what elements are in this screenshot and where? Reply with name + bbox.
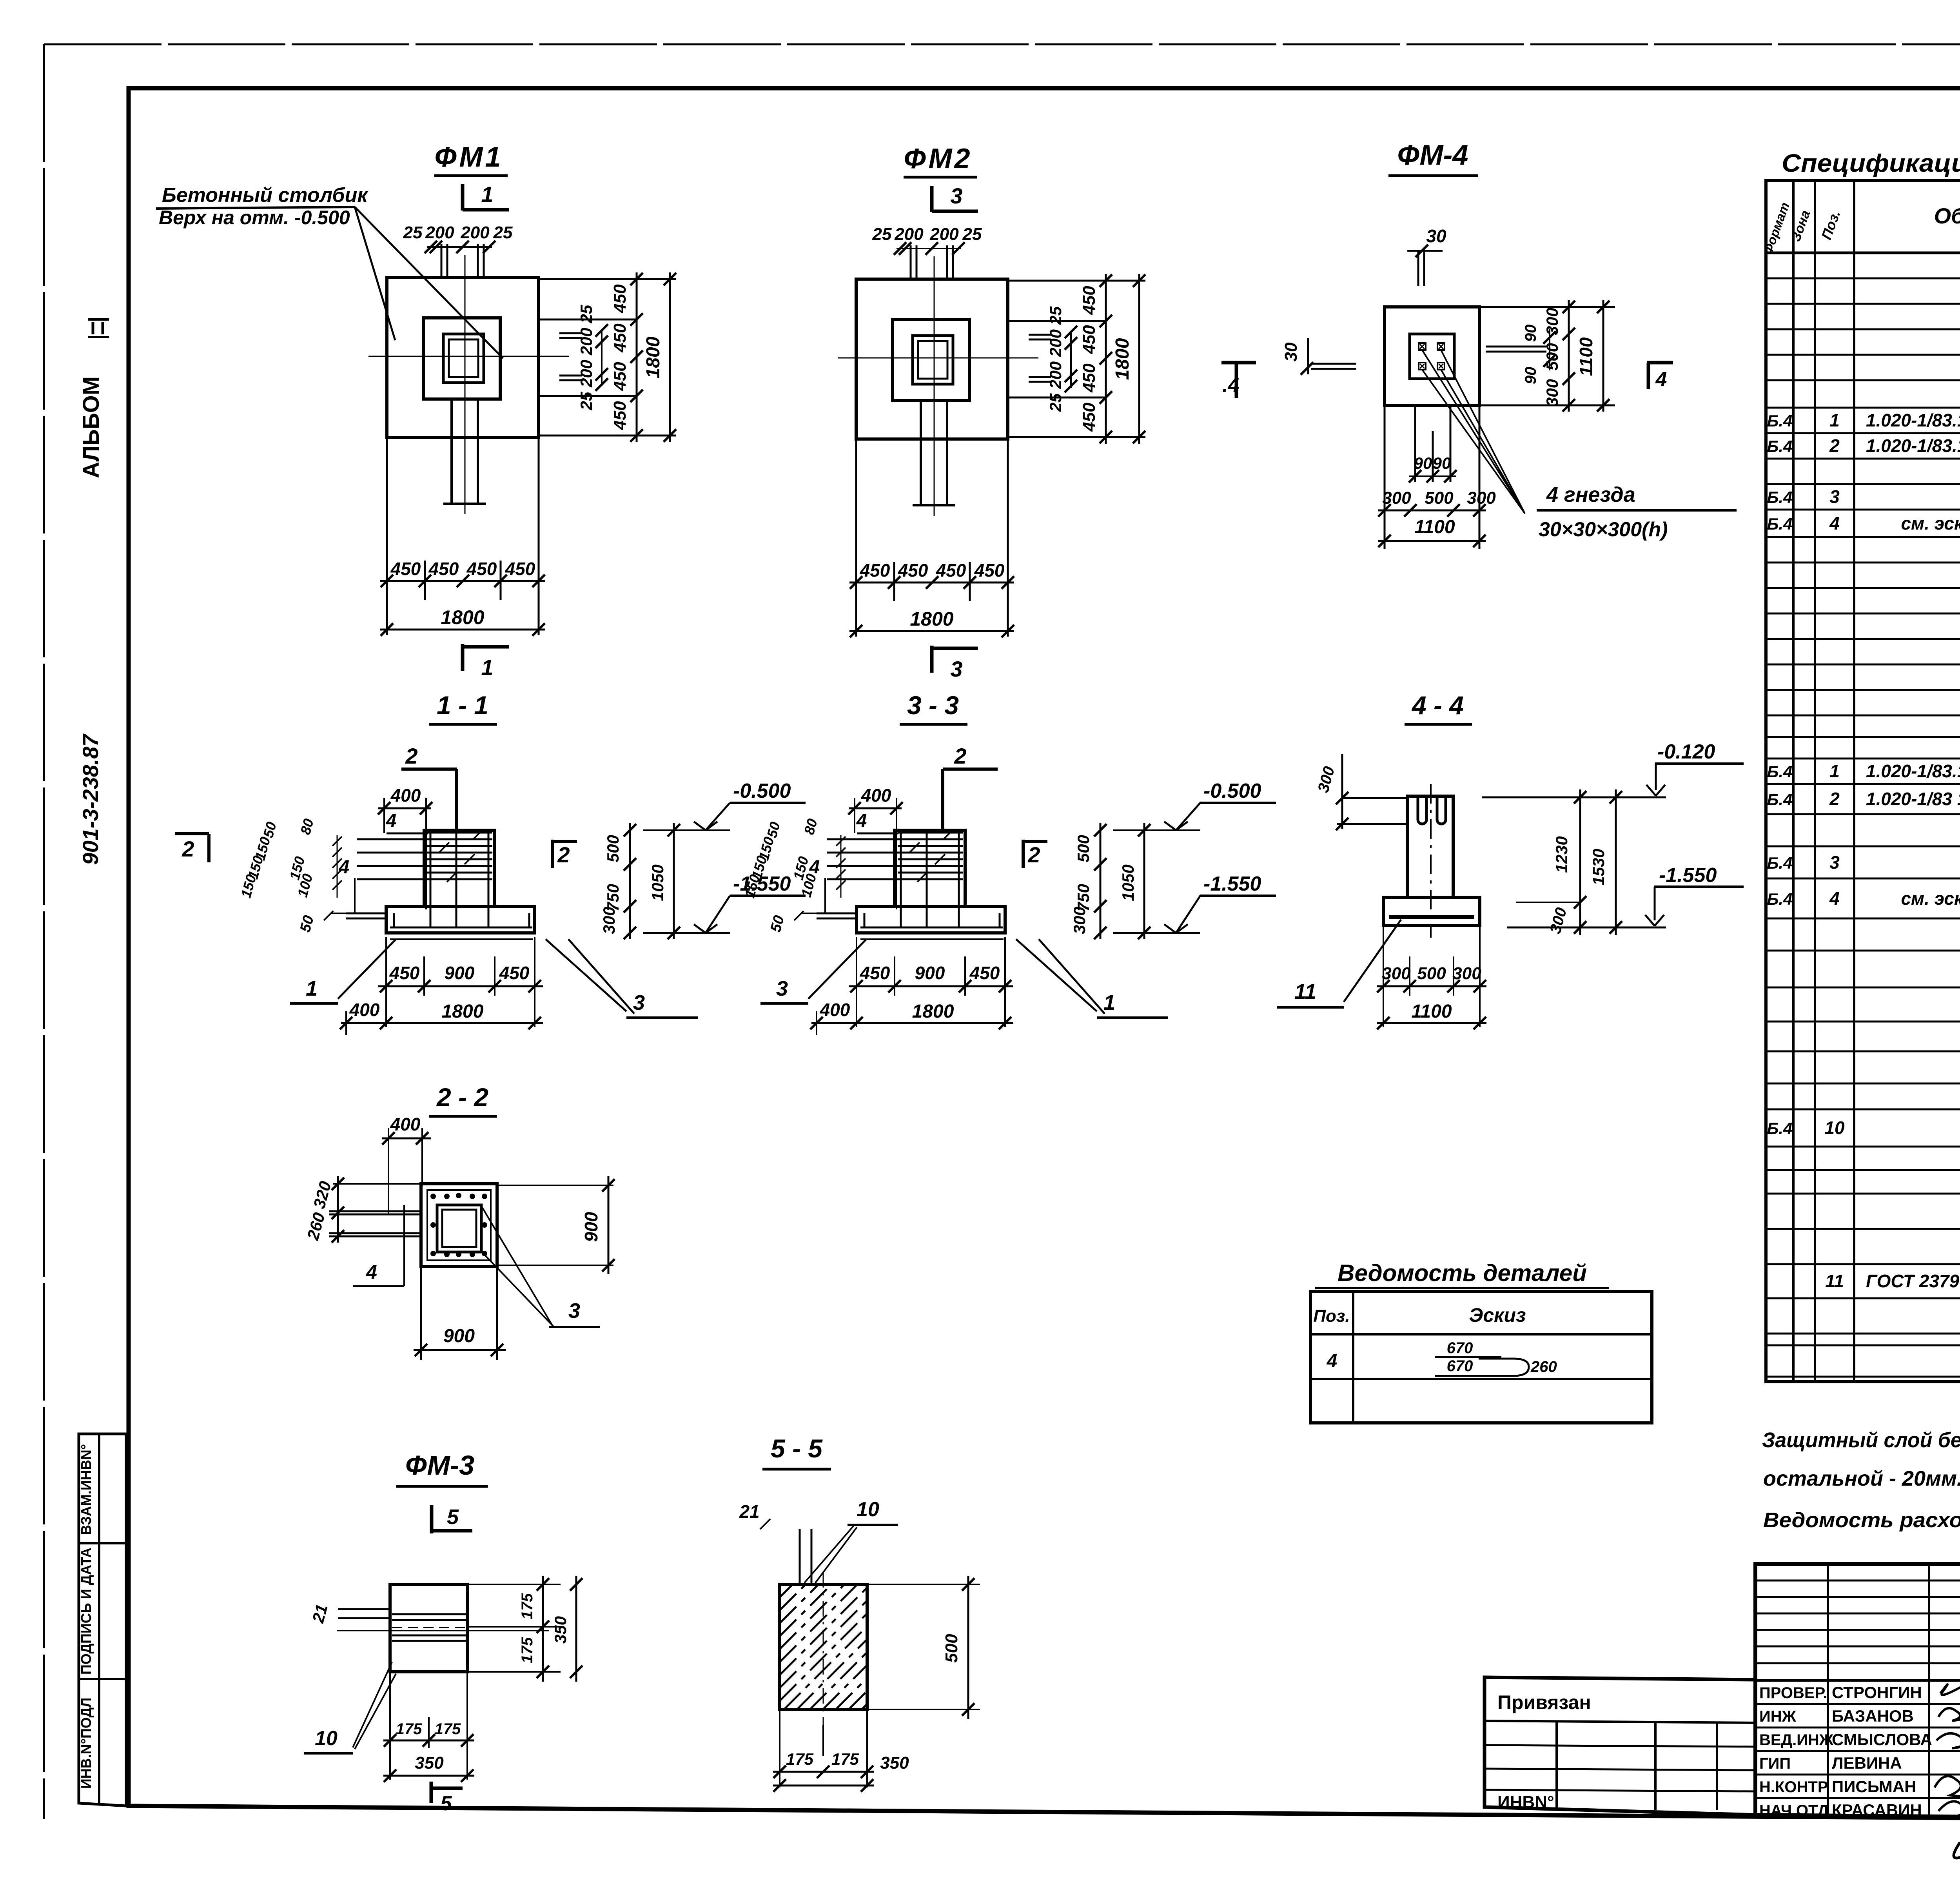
svg-text:4: 4 xyxy=(386,811,397,831)
bottom extension lines xyxy=(856,937,857,1027)
right extension lines xyxy=(539,278,676,280)
svg-text:175: 175 xyxy=(519,1593,536,1619)
right vertical dims 500 750 300 1050 xyxy=(1100,823,1102,939)
4-4 right dims 1230 300 xyxy=(1579,789,1581,935)
2-2 left bars xyxy=(329,1210,421,1212)
ФМ-4 right bars xyxy=(1486,346,1546,348)
svg-text:1: 1 xyxy=(481,655,493,680)
svg-text:450: 450 xyxy=(860,560,890,581)
svg-text:4 гнезда: 4 гнезда xyxy=(1546,483,1635,506)
svg-text:1230: 1230 xyxy=(1552,836,1571,873)
svg-text:1800: 1800 xyxy=(912,1001,954,1022)
svg-text:-0.500: -0.500 xyxy=(1203,780,1261,802)
svg-text:ВЗАМ.ИНВN°: ВЗАМ.ИНВN° xyxy=(78,1444,94,1535)
right vertical dims 500 750 300 1050 xyxy=(629,823,631,939)
svg-text:ПИСЬМАН: ПИСЬМАН xyxy=(1832,1777,1916,1796)
svg-text:300: 300 xyxy=(1382,488,1411,508)
svg-text:4: 4 xyxy=(1655,368,1667,391)
right extension lines xyxy=(1008,280,1145,282)
5-5 rebar stubs xyxy=(799,1529,801,1584)
svg-text:11: 11 xyxy=(1294,980,1316,1003)
signatures squiggles xyxy=(1940,1677,1960,1695)
bottom mesh bars xyxy=(860,927,1003,929)
section mark 1 bottom xyxy=(461,644,465,671)
svg-text:ИНВN°: ИНВN° xyxy=(1497,1793,1554,1812)
svg-text:-0.120: -0.120 xyxy=(1657,740,1715,763)
section cut mark 2 right xyxy=(551,840,554,868)
svg-text:1: 1 xyxy=(1829,761,1840,781)
svg-text:АЛЬБОМ: АЛЬБОМ xyxy=(78,376,104,478)
svg-text:450: 450 xyxy=(389,963,420,983)
svg-text:500: 500 xyxy=(1417,964,1446,983)
svg-text:450: 450 xyxy=(610,401,630,430)
stem rebar mesh xyxy=(898,832,963,834)
svg-text:Обозначение: Обозначение xyxy=(1934,203,1960,228)
svg-text:2: 2 xyxy=(181,836,194,861)
svg-text:ВЕД.ИНЖ: ВЕД.ИНЖ xyxy=(1759,1731,1834,1749)
svg-text:175: 175 xyxy=(435,1720,461,1738)
svg-text:1 - 1: 1 - 1 xyxy=(437,691,488,720)
svg-text:ПОДПИСЬ И ДАТА: ПОДПИСЬ И ДАТА xyxy=(78,1548,94,1675)
svg-text:450: 450 xyxy=(1080,403,1099,432)
section mark 3 bottom xyxy=(930,646,934,673)
svg-text:1100: 1100 xyxy=(1414,517,1455,537)
4-4 right dim 1530 xyxy=(1615,789,1617,935)
svg-text:1.020-1/83.1-10.3.0-01: 1.020-1/83.1-10.3.0-01 xyxy=(1866,435,1960,456)
bottom mesh bars xyxy=(390,927,532,929)
ФМ-3 top mark 5 xyxy=(430,1505,434,1533)
4-4 flange top ext line xyxy=(1516,902,1581,903)
svg-text:500: 500 xyxy=(1543,343,1561,370)
svg-text:11: 11 xyxy=(1825,1271,1844,1291)
title block xyxy=(1755,1564,1960,1822)
svg-text:670: 670 xyxy=(1447,1339,1473,1357)
5-5 hatched block xyxy=(780,1584,867,1709)
centerlines xyxy=(368,356,569,357)
svg-text:350: 350 xyxy=(415,1753,444,1773)
svg-text:450: 450 xyxy=(1080,325,1099,354)
svg-text:Б.4: Б.4 xyxy=(1767,437,1793,455)
svg-text:ФМ1: ФМ1 xyxy=(434,142,503,173)
4-4 flange xyxy=(1383,897,1480,925)
section cut mark 2 top xyxy=(401,768,457,771)
svg-text:260: 260 xyxy=(1530,1358,1557,1375)
svg-text:2: 2 xyxy=(405,744,417,768)
svg-text:2: 2 xyxy=(1829,789,1840,809)
svg-text:1050: 1050 xyxy=(648,864,667,901)
svg-text:450: 450 xyxy=(610,362,630,391)
svg-text:90: 90 xyxy=(1414,454,1432,472)
ФМ2 outer square 1800x1800 xyxy=(856,279,1008,439)
svg-text:670: 670 xyxy=(1447,1357,1473,1375)
svg-text:СТРОНГИН: СТРОНГИН xyxy=(1832,1683,1922,1702)
svg-text:450: 450 xyxy=(1080,363,1099,393)
foundation plan ФМ1 xyxy=(368,142,676,680)
svg-text:400: 400 xyxy=(390,1114,421,1134)
svg-text:Эскиз: Эскиз xyxy=(1469,1304,1526,1326)
svg-text:500: 500 xyxy=(1425,488,1454,508)
svg-text:5: 5 xyxy=(441,1792,452,1815)
svg-text:300: 300 xyxy=(1070,907,1089,934)
svg-text:10: 10 xyxy=(857,1498,879,1521)
svg-text:1: 1 xyxy=(481,182,493,207)
svg-text:1.020-1/83.1-10.1.0-04: 1.020-1/83.1-10.1.0-04 xyxy=(1866,761,1960,781)
2-2 rebar dots xyxy=(430,1194,436,1199)
ФМ-3 block xyxy=(390,1584,467,1672)
svg-text:3: 3 xyxy=(633,991,645,1014)
svg-text:450: 450 xyxy=(610,323,630,353)
svg-text:1050: 1050 xyxy=(1119,864,1137,901)
outer sheet border (thin, partly dashed) xyxy=(44,44,1960,45)
svg-text:175: 175 xyxy=(831,1750,859,1768)
svg-text:Б.4: Б.4 xyxy=(1767,488,1793,506)
svg-text:450: 450 xyxy=(466,559,497,579)
svg-text:300: 300 xyxy=(600,907,618,934)
svg-text:Б.4: Б.4 xyxy=(1767,890,1793,908)
right level lines xyxy=(1113,829,1200,831)
section mark 3 top xyxy=(930,186,934,212)
svg-text:450: 450 xyxy=(499,963,530,983)
svg-text:25 200 200 25: 25 200 200 25 xyxy=(1046,306,1065,412)
4-4 left dim 300 xyxy=(1343,797,1408,799)
2-2 outer square xyxy=(421,1184,497,1267)
svg-text:500: 500 xyxy=(942,1634,961,1663)
svg-text:3: 3 xyxy=(1829,486,1840,507)
svg-text:4 - 4: 4 - 4 xyxy=(1411,691,1464,720)
left protruding bottom bars xyxy=(817,913,857,915)
bottom extension lines xyxy=(386,437,388,635)
ФМ-3 right dims 175 175 350 xyxy=(467,1584,561,1585)
svg-text:300: 300 xyxy=(1467,488,1496,508)
svg-text:ИНЖ: ИНЖ xyxy=(1759,1708,1797,1725)
svg-text:1530: 1530 xyxy=(1589,849,1608,885)
svg-text:БАЗАНОВ: БАЗАНОВ xyxy=(1832,1707,1914,1725)
svg-text:1.020-1/83.1-10.1.0-04: 1.020-1/83.1-10.1.0-04 xyxy=(1866,410,1960,430)
section mark 1 top xyxy=(461,184,465,210)
svg-text:-1.550: -1.550 xyxy=(1659,864,1717,887)
svg-text:СМЫСЛОВА: СМЫСЛОВА xyxy=(1832,1730,1932,1749)
svg-text:2: 2 xyxy=(1829,435,1840,456)
svg-text:25 200 200 25: 25 200 200 25 xyxy=(577,305,595,410)
svg-text:см. эскиз: см. эскиз xyxy=(1866,513,1960,533)
svg-text:450: 450 xyxy=(936,560,966,581)
svg-text:4: 4 xyxy=(1327,1351,1338,1372)
svg-text:4: 4 xyxy=(366,1261,377,1283)
svg-text:3 - 3: 3 - 3 xyxy=(907,691,959,720)
svg-text:Б.4: Б.4 xyxy=(1767,762,1793,781)
svg-text:175: 175 xyxy=(396,1720,422,1738)
svg-text:901-3-238.87: 901-3-238.87 xyxy=(78,733,103,865)
svg-text:500: 500 xyxy=(1074,835,1093,862)
svg-text:10: 10 xyxy=(1824,1118,1845,1138)
svg-text:4: 4 xyxy=(856,811,867,831)
ФМ1 inner double square 400 xyxy=(443,334,484,383)
svg-text:3: 3 xyxy=(1829,852,1840,873)
svg-text:10: 10 xyxy=(315,1727,338,1750)
svg-text:5 - 5: 5 - 5 xyxy=(771,1434,823,1463)
4-4 U rebar stubs xyxy=(1418,797,1426,824)
5-5 right dim 500 xyxy=(867,1584,980,1585)
svg-text:Ведомость расхода стали на эле: Ведомость расхода стали на элемент см. н… xyxy=(1763,1508,1960,1532)
svg-text:Б.4: Б.4 xyxy=(1767,1119,1793,1138)
svg-text:Верх на отм. -0.500: Верх на отм. -0.500 xyxy=(159,207,350,229)
left protruding bottom bars xyxy=(346,913,386,915)
ФМ-4 right dim 1100 xyxy=(1602,300,1604,412)
svg-text:900: 900 xyxy=(443,1326,475,1346)
right small bar marks xyxy=(1029,334,1051,336)
svg-text:1800: 1800 xyxy=(910,608,953,630)
svg-text:1: 1 xyxy=(1829,410,1840,430)
svg-text:КРАСАВИН: КРАСАВИН xyxy=(1832,1801,1922,1819)
svg-text:1.020-1/83 1-10.30-01: 1.020-1/83 1-10.30-01 xyxy=(1866,789,1960,809)
svg-text:450: 450 xyxy=(610,284,630,314)
right dim chain 450x4 xyxy=(636,272,638,442)
ФМ1 outer square 1800x1800 xyxy=(387,278,539,437)
2-2 left dims 320 260 xyxy=(333,1183,421,1185)
4-4 bottom extension lines xyxy=(1383,927,1384,1027)
ФМ-4 right 90 90 dims xyxy=(1549,329,1550,370)
svg-text:3: 3 xyxy=(776,977,788,1000)
svg-text:200: 200 xyxy=(460,223,490,242)
svg-text:3: 3 xyxy=(950,183,962,208)
ФМ-4 inner square xyxy=(1410,334,1454,379)
svg-text:Н.КОНТР.: Н.КОНТР. xyxy=(1759,1778,1830,1796)
svg-text:остальной - 20мм.: остальной - 20мм. xyxy=(1763,1467,1960,1490)
svg-text:1800: 1800 xyxy=(442,1001,484,1022)
4-4 centerline xyxy=(1430,784,1432,938)
svg-text:300: 300 xyxy=(1543,308,1561,335)
4-4 right level line -0.120 xyxy=(1482,797,1666,798)
5-5 bottom dims xyxy=(779,1709,780,1787)
svg-text:2: 2 xyxy=(954,744,966,768)
svg-text:2: 2 xyxy=(557,842,570,867)
svg-text:ГИП: ГИП xyxy=(1759,1755,1791,1772)
ФМ-4 right extension lines xyxy=(1479,306,1615,308)
svg-text:25: 25 xyxy=(872,225,892,244)
svg-text:900: 900 xyxy=(915,963,945,983)
right dim 1800 xyxy=(669,272,671,442)
ФМ-4 outer square 1100 xyxy=(1385,307,1479,405)
ФМ-3 inner mesh lines xyxy=(392,1613,466,1615)
section cut mark 2 top xyxy=(943,768,998,771)
svg-text:Б.4: Б.4 xyxy=(1767,790,1793,809)
4-4 bottom level line -1.550 xyxy=(1507,927,1666,929)
bottom extension lines xyxy=(385,937,387,1027)
right dim chain 450x4 xyxy=(1105,274,1107,444)
svg-text:450: 450 xyxy=(860,963,890,983)
svg-text:450: 450 xyxy=(969,963,1000,983)
4-4 bottom mesh bold line xyxy=(1389,915,1474,919)
svg-text:90: 90 xyxy=(1433,454,1451,472)
svg-text:200: 200 xyxy=(929,225,959,244)
svg-text:30×30×300(h): 30×30×300(h) xyxy=(1539,518,1668,541)
svg-text:450: 450 xyxy=(1080,286,1099,315)
svg-text:400: 400 xyxy=(861,785,891,806)
svg-text:3: 3 xyxy=(568,1299,580,1323)
svg-text:300: 300 xyxy=(1382,964,1411,983)
right small bar marks xyxy=(559,332,582,334)
svg-text:175: 175 xyxy=(786,1750,814,1768)
svg-text:ФМ2: ФМ2 xyxy=(904,143,972,174)
svg-text:1100: 1100 xyxy=(1411,1001,1452,1022)
svg-text:300: 300 xyxy=(1452,964,1481,983)
svg-text:2: 2 xyxy=(1027,842,1040,867)
2-2 right dim 900 xyxy=(497,1185,613,1186)
svg-text:900: 900 xyxy=(581,1212,601,1242)
left stamp sidebar boxes xyxy=(79,1434,126,1806)
svg-text:450: 450 xyxy=(974,560,1005,581)
section 1-1 xyxy=(175,691,806,1035)
svg-text:1800: 1800 xyxy=(1112,338,1133,380)
svg-text:1: 1 xyxy=(306,977,318,1000)
ФМ-4 left section mark 4 xyxy=(1221,361,1256,365)
svg-text:175: 175 xyxy=(519,1637,536,1663)
svg-text:200: 200 xyxy=(425,223,454,242)
привязан block xyxy=(1485,1677,1755,1815)
ФМ-3 bottom dims xyxy=(389,1672,391,1780)
svg-text:3: 3 xyxy=(950,657,962,681)
svg-text:ФМ-4: ФМ-4 xyxy=(1397,140,1468,171)
ФМ2 inner double square 400 xyxy=(913,336,953,384)
svg-text:450: 450 xyxy=(505,559,535,579)
section 3-3 xyxy=(741,691,1276,1035)
svg-text:-1.550: -1.550 xyxy=(1203,873,1261,895)
svg-text:30: 30 xyxy=(1426,226,1446,246)
svg-text:Бетонный столбик: Бетонный столбик xyxy=(162,184,368,207)
ФМ-4 right dim chain 300 500 300 xyxy=(1568,300,1570,412)
svg-text:ПРОВЕР.: ПРОВЕР. xyxy=(1759,1684,1827,1702)
svg-text:Поз.: Поз. xyxy=(1313,1306,1350,1326)
5-5 centerline xyxy=(823,1572,824,1725)
svg-text:90: 90 xyxy=(1522,325,1539,342)
svg-text:25: 25 xyxy=(403,223,423,242)
section cut mark 2 right xyxy=(1022,840,1025,868)
top rebar bars xyxy=(910,245,912,279)
right dim 1800 xyxy=(1138,274,1140,444)
svg-text:400: 400 xyxy=(390,785,421,806)
svg-text:350: 350 xyxy=(551,1616,570,1644)
svg-text:300: 300 xyxy=(1543,379,1561,406)
ФМ1 middle square 900 xyxy=(423,318,500,399)
svg-text:ИНВ.N°ПОДЛ: ИНВ.N°ПОДЛ xyxy=(78,1698,94,1789)
footing stem xyxy=(424,830,495,906)
svg-text:400: 400 xyxy=(349,1000,380,1020)
ФМ-4 bottom extension lines xyxy=(1384,405,1386,549)
svg-text:Привязан: Привязан xyxy=(1497,1691,1591,1713)
svg-text:450: 450 xyxy=(390,559,421,579)
stem rebar mesh xyxy=(427,832,492,834)
row lines xyxy=(1766,278,1960,279)
svg-text:450: 450 xyxy=(898,560,928,581)
4-4 stem xyxy=(1408,796,1453,897)
right level lines xyxy=(643,829,730,831)
svg-text:25: 25 xyxy=(962,225,982,244)
svg-text:21: 21 xyxy=(739,1501,759,1522)
svg-text:-0.500: -0.500 xyxy=(733,780,791,802)
svg-text:ЛЕВИНА: ЛЕВИНА xyxy=(1832,1754,1902,1772)
svg-text:5: 5 xyxy=(447,1505,459,1529)
4 гнезда small squares xyxy=(1419,343,1426,350)
svg-text:350: 350 xyxy=(880,1753,909,1773)
2-2 bottom dim 900 xyxy=(420,1267,422,1360)
ФМ-4 right section mark 4 xyxy=(1647,361,1673,365)
foundation plan ФМ2 xyxy=(838,143,1145,681)
svg-text:4: 4 xyxy=(339,857,350,878)
svg-text:Б.4: Б.4 xyxy=(1767,515,1793,533)
footing stem xyxy=(895,830,965,906)
centerlines xyxy=(838,357,1038,359)
svg-text:.4: .4 xyxy=(1222,374,1239,397)
svg-text:ФМ-3: ФМ-3 xyxy=(405,1450,474,1481)
svg-text:1800: 1800 xyxy=(643,336,664,378)
svg-text:500: 500 xyxy=(604,835,622,862)
bottom extension lines xyxy=(855,439,857,637)
svg-text:см. эскиз: см. эскиз xyxy=(1866,888,1960,909)
svg-text:90: 90 xyxy=(1522,367,1539,385)
ФМ2 middle square 900 xyxy=(893,319,969,401)
svg-text:900: 900 xyxy=(445,963,475,983)
svg-text:Б.4: Б.4 xyxy=(1767,854,1793,872)
svg-text:2 - 2: 2 - 2 xyxy=(436,1083,488,1112)
svg-text:400: 400 xyxy=(820,1000,850,1020)
svg-text:4: 4 xyxy=(809,857,820,878)
svg-text:450: 450 xyxy=(428,559,459,579)
leader 4 гнезда xyxy=(1422,350,1525,514)
svg-text:Б.4: Б.4 xyxy=(1767,412,1793,430)
table box xyxy=(1310,1292,1652,1423)
column strip below xyxy=(450,399,453,504)
footing flange xyxy=(857,906,1005,933)
svg-text:ГОСТ 2379-85: ГОСТ 2379-85 xyxy=(1866,1271,1960,1291)
svg-text:1100: 1100 xyxy=(1576,337,1596,376)
svg-text:25: 25 xyxy=(493,223,513,242)
svg-text:Ведомость деталей: Ведомость деталей xyxy=(1338,1260,1587,1286)
svg-text:4: 4 xyxy=(1829,513,1840,533)
svg-text:4: 4 xyxy=(1829,888,1840,909)
column strip below xyxy=(920,401,922,505)
svg-text:1800: 1800 xyxy=(441,606,484,628)
ФМ-3 bottom mark 5 xyxy=(430,1782,433,1803)
svg-text:1: 1 xyxy=(1103,991,1115,1014)
svg-text:Защитный слой бетона для нижне: Защитный слой бетона для нижней арматуры… xyxy=(1762,1428,1960,1452)
svg-text:30: 30 xyxy=(1281,342,1301,361)
section cut mark 2 left xyxy=(175,832,209,835)
2-2 inner double square xyxy=(437,1205,481,1252)
svg-text:Спецификация монолитных фундам: Спецификация монолитных фундаментов ФМ1÷… xyxy=(1782,149,1960,177)
footing flange xyxy=(386,906,535,933)
svg-text:НАЧ.ОТД: НАЧ.ОТД xyxy=(1759,1802,1829,1819)
top rebar bars xyxy=(441,244,443,278)
svg-text:200: 200 xyxy=(894,225,924,244)
